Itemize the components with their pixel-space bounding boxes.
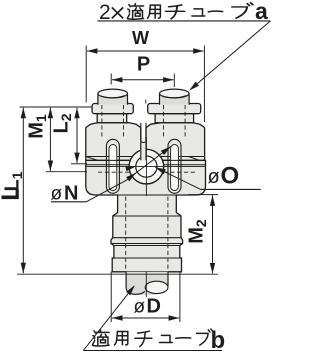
main Y body: [86, 160, 206, 271]
hidden bore lines top ports: [101, 105, 103, 138]
leader a: [190, 21, 270, 90]
leader oO: [155, 167, 200, 189]
extension line top: [20, 106, 93, 108]
right port cap housing: [146, 123, 205, 161]
dimension M2: [188, 194, 218, 196]
right port release ring: [148, 104, 201, 114]
margin artifact: [2, 196, 19, 200]
svg-text:P: P: [137, 54, 150, 76]
centerline between ports: [140, 141, 146, 160]
left port cap housing: [86, 123, 141, 161]
svg-text:N: N: [64, 183, 78, 205]
extension line bottom: [17, 273, 218, 275]
tube a right stub: [160, 94, 190, 105]
svg-text:a: a: [255, 0, 268, 24]
dimension L1: [22, 108, 24, 274]
central bore circle outer: [129, 149, 164, 184]
svg-text:O: O: [221, 163, 240, 190]
centerline horizontal: [87, 166, 206, 168]
body step lines: [86, 159, 130, 161]
left passage slot: [106, 139, 119, 193]
tube b bottom stub: [126, 272, 168, 295]
hidden bore lines bottom port: [125, 197, 127, 272]
svg-text:D: D: [147, 296, 161, 318]
centerline vertical: [145, 137, 147, 196]
svg-text:ø: ø: [134, 297, 146, 318]
tube a left stub: [98, 94, 128, 105]
right passage slot: [168, 139, 181, 193]
dimension W: [85, 46, 87, 103]
dimension P: [110, 74, 112, 85]
central bore circle inner: [136, 156, 157, 177]
cap band lines: [86, 156, 189, 158]
leader b: [83, 286, 134, 350]
leader oN: [86, 147, 171, 202]
dimension oD: [110, 272, 112, 323]
left port release ring: [92, 104, 133, 114]
dimension L2: [76, 108, 78, 163]
svg-text:ø: ø: [208, 166, 220, 188]
label applicable tube b: [92, 330, 109, 346]
right port neck: [155, 114, 194, 123]
lower port joint lines: [118, 194, 177, 196]
dimension M1: [49, 108, 51, 171]
hidden line across body: [98, 171, 130, 173]
left port neck: [97, 114, 127, 123]
svg-text:W: W: [132, 28, 149, 48]
